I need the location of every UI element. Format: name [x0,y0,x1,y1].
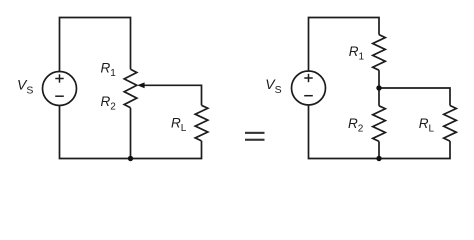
minus sign VS left [55,95,64,97]
wire: left circuit bottom loop [60,106,202,159]
wire: wiper to RL [144,85,202,105]
plus sign VS right [304,77,312,79]
voltage source VS (right) [292,71,326,105]
wiper arrow of potentiometer [137,82,144,88]
resistor R1 (right) zigzag [373,35,386,71]
minus sign VS right [304,95,313,97]
wire: left circuit top [60,18,131,72]
resistor RL (right) zigzag [444,106,457,142]
wire: right circuit top [309,18,380,72]
plus sign VS left [55,78,63,80]
wire: right circuit left-bottom [309,105,451,159]
resistor RL (left) zigzag [195,105,208,141]
node: bottom junction (right) [376,156,381,161]
wire: R2 bottom lead [378,141,380,158]
wire: node A to RL (right) [379,88,450,106]
node A: R1/R2/RL junction (right) [376,85,381,90]
equals sign [245,132,265,134]
resistor R1/R2 potentiometer zigzag [124,69,137,108]
voltage source VS (left) [43,72,77,106]
wire: R1 to node A [378,70,380,106]
resistor R2 (right) zigzag [373,106,386,142]
wire: potentiometer bottom lead [130,108,132,159]
node: pot bottom junction [128,156,133,161]
